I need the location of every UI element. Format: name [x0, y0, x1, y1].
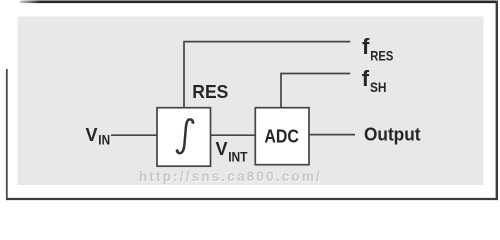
wire: VINT from U1 to ADC U2: [211, 134, 256, 136]
svg-text:SH: SH: [370, 79, 387, 95]
svg-text:Output: Output: [364, 125, 421, 145]
svg-text:V: V: [216, 139, 228, 159]
label fSH: [362, 66, 387, 95]
svg-text:V: V: [86, 125, 98, 145]
svg-text:http://sns.ca800.com/: http://sns.ca800.com/: [139, 169, 321, 184]
wire: fSH net from ADC U2 top: [281, 74, 350, 109]
svg-text:IN: IN: [98, 132, 110, 148]
svg-text:f: f: [362, 66, 370, 91]
label fRES: [362, 34, 393, 64]
label Output: [364, 125, 421, 145]
integrator U1: [157, 108, 211, 167]
ADC U2: [255, 108, 309, 165]
svg-text:RES: RES: [192, 82, 228, 102]
label RES (above integrator U1): [192, 82, 228, 102]
label VIN: [86, 125, 111, 148]
wire: ADC U2 output: [309, 134, 355, 136]
label VINT: [216, 139, 248, 165]
svg-text:f: f: [362, 34, 370, 59]
wire: fRES net from integrator U1 top: [184, 42, 350, 108]
svg-text:RES: RES: [370, 47, 393, 63]
svg-text:INT: INT: [228, 148, 248, 164]
wire: VIN input to integrator U1: [111, 134, 157, 136]
svg-text:ADC: ADC: [264, 127, 299, 147]
